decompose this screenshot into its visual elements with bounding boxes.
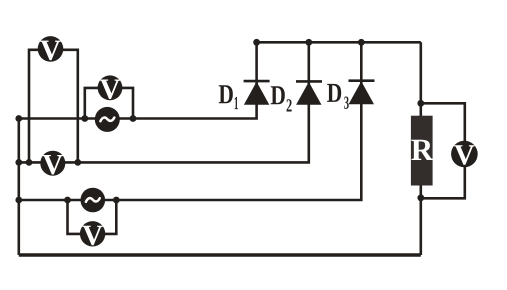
svg-text:V: V [42,149,63,181]
diode D3 [349,81,375,105]
svg-text:V: V [82,220,103,252]
junction dot row3 x left bus [15,197,22,204]
diode D2 [296,81,322,104]
wire phase row 1 with D1 riser [19,42,257,118]
junction dot top bus x D2 [305,39,312,46]
junction dot row2 x V1-loop right [74,159,81,166]
voltmeter V5 (across R) [451,139,478,171]
wire left vertical bus [17,119,20,256]
ac source G1 [95,107,120,132]
junction dot R top node [417,100,424,107]
junction dot row1 left end [15,115,22,122]
voltmeter V4 (below source G2) [80,220,105,252]
diode D1 [244,81,270,105]
svg-text:2: 2 [286,97,292,117]
svg-text:D: D [270,79,286,110]
junction dot row1 x V2-loop right [130,115,137,122]
wire phase row 3 with D3 riser [19,42,362,200]
wire voltmeter V4 loop across source G2 [68,200,117,234]
wire right bus top to resistor [419,42,422,117]
voltmeter V3 (series row 2) [40,149,65,181]
wire phase row 2 with D2 riser [19,42,309,162]
wire voltmeter V5 loop [421,103,465,198]
voltmeter V1 (top left) [38,35,64,67]
junction dot row3 x V4-loop left [64,197,71,204]
junction dot row1 x V2-loop left [81,115,88,122]
wire resistor bottom to bottom bus [419,184,422,255]
junction dot row2 x V1-loop left [26,159,33,166]
resistor R [411,116,434,186]
junction dot R bottom node [417,194,424,201]
svg-text:1: 1 [234,94,239,114]
ac source G2 [81,188,106,213]
svg-text:V: V [40,35,61,67]
svg-text:3: 3 [344,94,349,114]
wire voltmeter V2 loop across source G1 [85,88,133,119]
junction dot row3 x V4-loop right [113,197,120,204]
svg-text:V: V [454,139,475,171]
svg-text:D: D [327,77,343,108]
svg-text:R: R [411,132,434,167]
junction dot top bus x D1 [253,39,260,46]
svg-text:V: V [100,73,121,105]
svg-text:D: D [218,78,234,109]
junction dot top bus x D3 [358,39,365,46]
junction dot row2 x left bus [15,159,22,166]
wire bottom return bus [19,253,421,256]
voltmeter V2 (above source G1) [98,73,123,105]
wire top bus [257,41,421,44]
wire voltmeter V1 loop [29,50,78,163]
